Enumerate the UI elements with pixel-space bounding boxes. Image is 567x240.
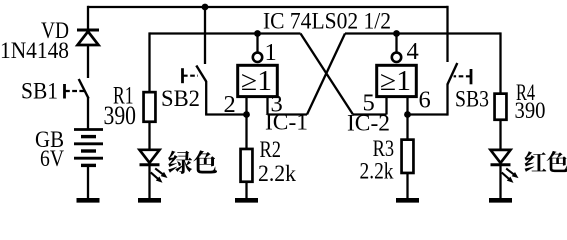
svg-text:2.2k: 2.2k bbox=[258, 161, 296, 186]
svg-text:4: 4 bbox=[407, 38, 419, 65]
node junction on top rail bbox=[202, 4, 209, 11]
switch SB3 actuator dashed link bbox=[454, 75, 471, 77]
label 绿色 (green) bbox=[168, 150, 217, 174]
svg-text:2.2k: 2.2k bbox=[360, 159, 394, 184]
LED VL1 green arrow 2 bbox=[151, 172, 163, 182]
wire top supply rail bbox=[88, 6, 448, 8]
svg-text:2: 2 bbox=[224, 91, 236, 118]
wire pin3 horizontal bbox=[268, 113, 308, 115]
LED VL1 green triangle bbox=[140, 150, 160, 163]
NOR gate U2 IC-2 box bbox=[377, 65, 417, 96]
switch SB1 arm bbox=[79, 79, 89, 99]
wire R3 drop bbox=[406, 115, 408, 141]
ground green LED bbox=[138, 198, 161, 203]
resistor R2 body bbox=[241, 149, 253, 182]
wire pin2 to R2 bbox=[245, 115, 247, 150]
wire Q-bar output rail (gate2) bbox=[345, 32, 501, 34]
svg-text:IC 74LS02 1/2: IC 74LS02 1/2 bbox=[263, 9, 391, 34]
wire gate1 output stub bbox=[256, 34, 258, 54]
wire gate2 pin6 bbox=[406, 97, 408, 115]
wire SB2 down bbox=[205, 81, 207, 115]
wire R1 to green LED bbox=[148, 123, 150, 151]
battery GB short plate 2 bbox=[81, 149, 96, 152]
ground red LED bbox=[489, 198, 512, 203]
wire top rail to SB2 bbox=[204, 7, 206, 64]
svg-text:IC-1: IC-1 bbox=[265, 110, 308, 135]
LED VL2 red cathode bar bbox=[491, 163, 511, 166]
wire pin6 to SB3 bbox=[408, 113, 448, 115]
wire top rail down to SB3 bbox=[446, 6, 448, 62]
wire rail to R4 bbox=[499, 32, 501, 93]
switch SB3 arm bbox=[447, 63, 457, 85]
LED VL2 red arrow 2 bbox=[502, 173, 514, 183]
wire red LED to ground bbox=[499, 166, 501, 199]
ground R3 bbox=[396, 198, 419, 203]
svg-text:R3: R3 bbox=[373, 136, 395, 161]
wire gate2 output stub bbox=[395, 34, 397, 54]
node gate1 output junction bbox=[254, 30, 261, 37]
svg-text:390: 390 bbox=[104, 101, 137, 130]
svg-text:R2: R2 bbox=[260, 137, 282, 162]
battery GB long plate 2 bbox=[74, 142, 103, 145]
svg-text:IC-2: IC-2 bbox=[347, 111, 390, 136]
svg-text:6V: 6V bbox=[40, 146, 64, 171]
wire VD to SB1 bbox=[87, 45, 89, 78]
resistor R3 body bbox=[402, 140, 414, 173]
wire cross-couple diagonal from gate1 output to pin5 bbox=[301, 34, 354, 115]
svg-text:1N4148: 1N4148 bbox=[0, 38, 69, 63]
svg-text:6: 6 bbox=[419, 87, 431, 114]
switch SB1 actuator bar bbox=[63, 84, 66, 99]
switch SB2 arm bbox=[196, 66, 206, 82]
NOR gate U2 IC-2 output bubble bbox=[392, 53, 401, 62]
svg-text:1: 1 bbox=[265, 39, 277, 66]
switch SB2 actuator dashed link bbox=[183, 75, 198, 77]
node pin2 junction bbox=[243, 111, 250, 118]
resistor R1 body bbox=[144, 92, 156, 122]
battery GB short plate 1 bbox=[81, 135, 96, 138]
wire SB3 down to pin6 rail bbox=[446, 84, 448, 116]
resistor R4 body bbox=[495, 94, 507, 120]
wire gate1 pin3 bbox=[266, 97, 268, 115]
svg-text:SB1: SB1 bbox=[21, 79, 58, 104]
svg-text:≥1: ≥1 bbox=[241, 66, 272, 97]
svg-text:SB3: SB3 bbox=[455, 87, 489, 112]
wire cross-couple diagonal from gate2 output to pin3 bbox=[307, 34, 345, 115]
node gate2 output junction bbox=[393, 30, 400, 37]
wire green LED to ground bbox=[148, 166, 150, 200]
wire R3 to ground bbox=[406, 174, 408, 200]
diode VD cathode bar bbox=[77, 28, 99, 31]
wire rail to R1 bbox=[148, 32, 150, 92]
switch SB2 actuator bar bbox=[181, 68, 184, 83]
wire R4 to red LED bbox=[499, 121, 501, 151]
svg-text:SB2: SB2 bbox=[161, 86, 200, 111]
LED VL1 green arrow 1 bbox=[155, 168, 167, 178]
LED VL2 red triangle bbox=[491, 150, 511, 163]
wire gate2 pin5 bbox=[385, 97, 387, 115]
battery GB long plate 1 bbox=[74, 128, 103, 131]
battery GB long plate 3 bbox=[74, 157, 103, 160]
NOR gate U1 IC-1 output bubble bbox=[253, 53, 262, 62]
svg-text:≥1: ≥1 bbox=[380, 66, 411, 97]
LED VL2 red arrow 1 bbox=[506, 169, 518, 179]
wire VD branch top bbox=[87, 6, 89, 30]
wire SB2 to gate1 pin2 bbox=[205, 113, 246, 115]
wire SB1 to battery bbox=[87, 98, 89, 130]
wire R2 to ground bbox=[245, 182, 247, 199]
switch SB3 actuator bar bbox=[470, 69, 473, 84]
wire pin5 horizontal bbox=[353, 113, 387, 115]
NOR gate U1 IC-1 box bbox=[238, 65, 278, 96]
label 红色 (red) bbox=[525, 151, 567, 172]
battery GB short plate 3 bbox=[81, 164, 96, 167]
ground R2 bbox=[235, 198, 258, 203]
diode VD triangle bbox=[78, 32, 99, 46]
wire battery to ground bbox=[87, 165, 89, 199]
wire gate1 pin2 bbox=[245, 97, 247, 115]
wire Q output rail (gate1) bbox=[150, 32, 301, 34]
ground battery bbox=[77, 198, 100, 203]
LED VL1 green cathode bar bbox=[140, 163, 160, 166]
node pin6 junction bbox=[404, 111, 411, 118]
svg-text:390: 390 bbox=[515, 98, 546, 123]
switch SB1 actuator dashed link bbox=[65, 90, 84, 92]
